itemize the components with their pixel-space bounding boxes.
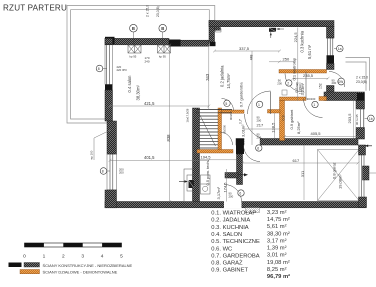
- svg-text:0: 0: [23, 254, 26, 260]
- wall step connector: [209, 21, 215, 43]
- svg-text:0.2 jadalnia: 0.2 jadalnia: [220, 65, 225, 87]
- dim line 838 vertical: [168, 44, 171, 203]
- svg-text:311: 311: [300, 170, 305, 177]
- svg-text:838: 838: [166, 134, 171, 142]
- corner block top-left: [105, 37, 115, 44]
- wc partition line: [305, 72, 307, 101]
- svg-text:200: 200: [332, 81, 337, 85]
- svg-text:0.5. TECHNICZNE: 0.5. TECHNICZNE: [211, 239, 260, 245]
- svg-text:90/200: 90/200: [229, 111, 233, 120]
- svg-text:3,17m²: 3,17m²: [216, 186, 221, 199]
- svg-text:200: 200: [277, 81, 282, 85]
- eaves outline left/top: [67, 6, 215, 124]
- block H1 left: [236, 139, 244, 155]
- svg-text:5: 5: [225, 102, 227, 106]
- svg-text:224,5: 224,5: [293, 32, 298, 43]
- orange wall O5 wc bottom: [280, 97, 307, 101]
- lintel left wall: [105, 85, 113, 91]
- dim line 617: [241, 162, 359, 165]
- stairs treads: [196, 110, 232, 149]
- svg-text:23,0(8): 23,0(8): [356, 80, 367, 84]
- wall B top exterior: [209, 21, 334, 27]
- wall H1 middle horizontal: [236, 139, 358, 146]
- block H2 right: [357, 93, 365, 104]
- svg-text:250: 250: [283, 56, 290, 61]
- svg-text:200: 200: [119, 170, 124, 174]
- svg-text:90/200: 90/200: [223, 125, 227, 134]
- room list: [211, 210, 290, 280]
- svg-text:8,25 m²: 8,25 m²: [267, 267, 287, 273]
- outside step: [246, 208, 260, 213]
- door arc garage D6: [244, 145, 261, 162]
- svg-text:19,08m²: 19,08m²: [338, 174, 343, 189]
- svg-text:90 lu 95: 90 lu 95: [355, 114, 359, 125]
- garage inner box with X: [318, 150, 360, 201]
- dim line 311 vertical: [303, 145, 305, 200]
- door tag circle stairs: [224, 100, 230, 106]
- dim line 250: [269, 60, 294, 63]
- svg-text:14,75m²: 14,75m²: [226, 73, 231, 89]
- svg-text:174,5: 174,5: [223, 182, 228, 193]
- door gap bottom wall: [224, 201, 242, 208]
- svg-text:kp 95: kp 95: [159, 54, 166, 58]
- svg-text:0.7 garderoba: 0.7 garderoba: [238, 82, 243, 108]
- svg-text:138,5: 138,5: [271, 122, 276, 133]
- orange wall O1 kitchen bottom: [279, 70, 327, 74]
- right wall piece below window: [327, 64, 335, 70]
- svg-text:405,5: 405,5: [311, 131, 322, 136]
- svg-text:0.4 salon: 0.4 salon: [127, 75, 132, 93]
- window kitchen right: [327, 38, 335, 56]
- svg-text:3,17 m²: 3,17 m²: [267, 238, 287, 244]
- vent box jadalnia corner: [216, 29, 222, 33]
- dim line 421,5: [109, 105, 211, 108]
- svg-text:4: 4: [101, 254, 104, 260]
- lintel right wall: [327, 56, 335, 64]
- svg-text:448: 448: [249, 55, 253, 61]
- left wall jog: [107, 121, 117, 154]
- svg-text:1: 1: [43, 254, 46, 260]
- svg-text:8: 8: [98, 67, 100, 71]
- svg-text:0.9. GABINET: 0.9. GABINET: [211, 268, 248, 274]
- wall nib S2 left: [225, 173, 238, 179]
- svg-text:5,61 m²: 5,61 m²: [267, 224, 287, 230]
- svg-text:3,01 m²: 3,01 m²: [267, 253, 287, 259]
- garage gate lines: [362, 155, 365, 197]
- svg-text:0.2. JADALNIA: 0.2. JADALNIA: [211, 218, 250, 224]
- door arc stairs top: [222, 99, 234, 111]
- right wall upper (kitchen): [327, 27, 335, 39]
- svg-text:0.1 wiatrołap: 0.1 wiatrołap: [292, 57, 297, 80]
- left wall top piece: [105, 38, 113, 44]
- svg-text:0.6. WC: 0.6. WC: [211, 246, 232, 252]
- wc washbasin: [282, 90, 287, 95]
- left wall mid: [105, 90, 113, 121]
- door arc garden: [225, 185, 242, 202]
- dim line 138,5 vertical: [274, 113, 276, 139]
- dim line 203,5 vertical: [353, 101, 355, 139]
- chimney right outside: [363, 166, 370, 180]
- svg-text:220 IPO: 220 IPO: [117, 68, 128, 72]
- svg-text:5: 5: [120, 254, 123, 260]
- svg-text:421,5: 421,5: [144, 101, 155, 106]
- orange wall O3 vertical: [280, 101, 285, 141]
- wall S1 stairs left: [193, 108, 200, 202]
- downpipe leader: [94, 130, 111, 160]
- orange wall O7a: [222, 110, 245, 113]
- svg-text:1,39m²: 1,39m²: [299, 82, 303, 95]
- svg-text:B: B: [161, 26, 164, 31]
- svg-text:8: 8: [102, 170, 104, 174]
- scale numbers: [23, 254, 123, 260]
- svg-text:0.3 kuchnia: 0.3 kuchnia: [300, 30, 305, 52]
- svg-text:1a: 1a: [338, 47, 342, 51]
- door arc corridor: [220, 132, 233, 145]
- svg-text:38,30 m²: 38,30 m²: [267, 231, 290, 237]
- window tag circle left W1: [96, 65, 106, 72]
- door arc D1: [248, 91, 271, 114]
- svg-text:1: 1: [258, 103, 260, 107]
- svg-text:1b: 1b: [369, 117, 373, 121]
- window W1 left: [105, 44, 113, 85]
- svg-text:235,5: 235,5: [303, 73, 314, 78]
- svg-text:0.8 garaż: 0.8 garaż: [332, 162, 337, 179]
- svg-text:194,5: 194,5: [201, 155, 212, 160]
- window R2: [356, 109, 365, 128]
- arrow at H1 right: [365, 145, 372, 148]
- door gap H1: [244, 138, 259, 146]
- door tag circle D1: [256, 101, 262, 107]
- bottom wall: [105, 202, 366, 208]
- window label circle 1b: [365, 115, 375, 122]
- svg-text:0.5 pom. tech.: 0.5 pom. tech.: [205, 160, 210, 185]
- svg-text:5,61 m²: 5,61 m²: [307, 44, 312, 59]
- right wall door jamb piece: [327, 86, 335, 93]
- dim line 235,5: [292, 77, 330, 80]
- svg-text:0,7: 0,7: [238, 119, 242, 124]
- svg-text:DW: DW: [338, 80, 343, 84]
- scale bar: [25, 243, 122, 247]
- legend row 2: [20, 270, 118, 275]
- door tag circle gabinet: [312, 101, 318, 107]
- svg-text:kp 95: kp 95: [130, 54, 137, 58]
- vent marker wall B: [269, 28, 284, 38]
- dim line 448 vertical: [251, 51, 253, 145]
- door tag circle D2: [286, 80, 292, 86]
- wall R2 right vertical: [356, 101, 365, 140]
- svg-text:RZUT PARTERU: RZUT PARTERU: [3, 3, 67, 12]
- door tag circle DW: [338, 78, 345, 85]
- svg-text:8,25m²: 8,25m²: [296, 121, 301, 134]
- svg-text:1,39 m²: 1,39 m²: [267, 246, 287, 252]
- door arc gabinet: [304, 99, 323, 118]
- svg-text:14,75 m²: 14,75 m²: [267, 217, 290, 223]
- orange wall O6 vertical stairs: [218, 108, 222, 153]
- svg-text:0.9 gabinet: 0.9 gabinet: [289, 109, 294, 130]
- window tag circle left W2: [100, 168, 110, 175]
- vent arrow S2: [238, 173, 248, 176]
- legend row 1: [9, 263, 133, 268]
- svg-text:6: 6: [239, 192, 241, 196]
- svg-text:240: 240: [145, 60, 150, 64]
- wall S2 vertical: [237, 154, 243, 185]
- wall H2 garage top: [324, 92, 365, 101]
- svg-text:2: 2: [62, 254, 65, 260]
- svg-text:343: 343: [205, 73, 210, 81]
- svg-text:0.1. WIATROŁAP: 0.1. WIATROŁAP: [211, 211, 256, 217]
- svg-text:337,5: 337,5: [239, 46, 250, 51]
- radiator 2 under wall A: [158, 45, 171, 53]
- svg-text:B: B: [132, 26, 135, 31]
- door arc jadalnia-wiatrolap: [285, 74, 304, 93]
- dim line 337,5: [213, 50, 281, 53]
- svg-text:19,08 m²: 19,08 m²: [267, 260, 290, 266]
- svg-text:1: 1: [313, 103, 315, 107]
- svg-text:3,01m²: 3,01m²: [241, 124, 246, 137]
- svg-text:0.7. GARDEROBA: 0.7. GARDEROBA: [211, 253, 259, 259]
- stairs up arrow: [197, 110, 216, 147]
- door arc wc down: [245, 114, 271, 140]
- dim line 343 vertical: [208, 44, 210, 110]
- window label circle 1a: [334, 45, 343, 52]
- svg-text:0.8. GARAŻ: 0.8. GARAŻ: [211, 260, 243, 267]
- entrance door arc DW: [329, 72, 345, 88]
- svg-text:617: 617: [293, 158, 300, 163]
- dim line 174,5 vertical: [225, 169, 227, 202]
- svg-text:401,5: 401,5: [144, 155, 155, 160]
- svg-text:152: 152: [319, 83, 323, 89]
- orange wall O8 pom tech top: [197, 150, 233, 154]
- window W2 left: [107, 154, 117, 190]
- orange wall O4: [268, 110, 281, 114]
- door tag circle D6: [256, 145, 262, 151]
- dim line 405,5: [283, 135, 359, 138]
- svg-text:ŚCIANY DZIAŁOWE - DEMONTOWALNE: ŚCIANY DZIAŁOWE - DEMONTOWALNE: [43, 270, 118, 275]
- eaves outline right: [346, 58, 370, 91]
- circled vent B1 top: [130, 24, 138, 44]
- corner pilaster: [215, 24, 221, 30]
- svg-text:6: 6: [257, 147, 259, 151]
- svg-text:200: 200: [229, 194, 234, 198]
- dim line 194,5: [200, 159, 237, 161]
- left wall bottom corner: [105, 190, 117, 208]
- leader from chimney: [369, 172, 376, 174]
- svg-text:ŚCIANY KONSTRUKCYJNE - NIEROZB: ŚCIANY KONSTRUKCYJNE - NIEROZBIERALNE: [43, 263, 133, 268]
- svg-text:0.4. SALON: 0.4. SALON: [211, 232, 242, 238]
- svg-text:0.3. KUCHNIA: 0.3. KUCHNIA: [211, 225, 249, 231]
- svg-text:0,9: 0,9: [282, 116, 286, 121]
- circled vent B2 top: [159, 24, 167, 44]
- svg-text:2 x 15,0: 2 x 15,0: [146, 5, 150, 17]
- radiator 1 under wall A: [128, 45, 141, 53]
- door leaf D1: [270, 92, 272, 115]
- svg-text:90/200: 90/200: [307, 97, 316, 101]
- svg-text:2: 2: [287, 82, 289, 86]
- boiler pom tech: [201, 175, 211, 194]
- dim line 217: [243, 128, 280, 130]
- svg-text:38,30m²: 38,30m²: [136, 85, 141, 101]
- svg-text:23,0(8): 23,0(8): [156, 6, 160, 17]
- door tag circle garden: [238, 190, 244, 196]
- svg-text:rsp 100: rsp 100: [90, 150, 94, 160]
- svg-text:3: 3: [81, 254, 84, 260]
- svg-text:96,79 m²: 96,79 m²: [267, 273, 290, 280]
- svg-text:3,23 m²: 3,23 m²: [267, 210, 287, 216]
- svg-text:200: 200: [257, 135, 262, 139]
- fireplace chimney salon: [179, 169, 194, 202]
- lintel block wall A: [169, 40, 181, 47]
- svg-text:217: 217: [257, 122, 264, 127]
- junction black block: [210, 42, 216, 46]
- dim line 224,5 vertical: [297, 28, 299, 102]
- garage right door corners: [359, 145, 366, 155]
- svg-text:203,5: 203,5: [347, 113, 352, 124]
- svg-text:16x17,9/28: 16x17,9/28: [186, 108, 190, 122]
- svg-text:2 x 15,0: 2 x 15,0: [356, 76, 368, 80]
- wall A top-left exterior: [105, 38, 209, 46]
- dim line 401,5: [109, 159, 211, 162]
